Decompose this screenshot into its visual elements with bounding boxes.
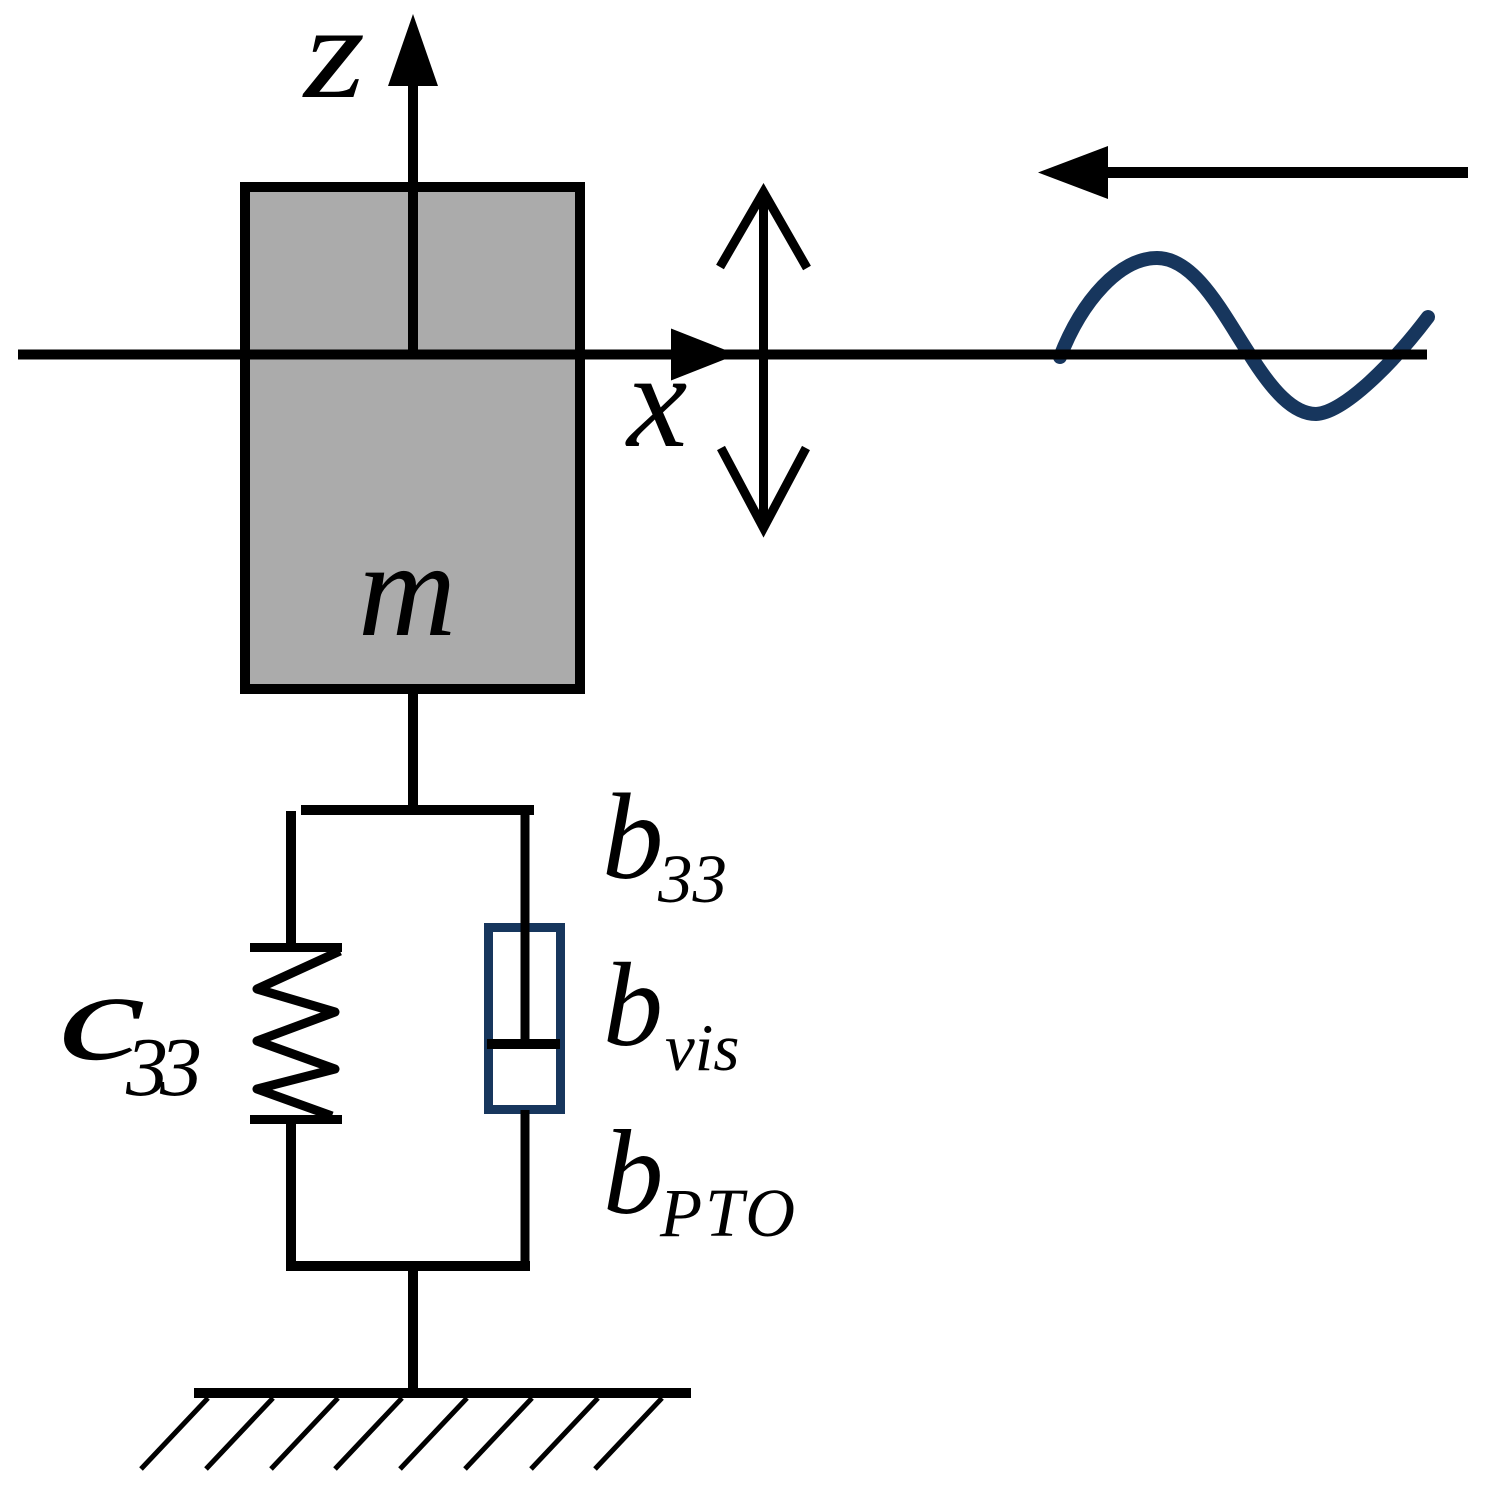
x axis line (water line): [18, 350, 1427, 360]
damper cylinder (blue): [489, 928, 561, 1110]
svg-text:z: z: [302, 0, 365, 126]
x axis arrowhead: [671, 329, 737, 381]
top junction bar: [301, 805, 534, 815]
svg-text:m: m: [358, 515, 456, 665]
z axis label: [302, 0, 365, 126]
damper piston plate: [487, 1039, 560, 1049]
heave arrow bottom chevron: [721, 448, 806, 528]
heave arrow top chevron: [720, 192, 807, 268]
svg-text:b: b: [603, 938, 663, 1071]
ground hatching: [141, 1398, 662, 1469]
svg-text:x: x: [625, 326, 687, 476]
spring label c33: [58, 946, 145, 1087]
wire damper to bottom junction: [521, 1110, 530, 1271]
incident wave direction arrow shaft: [1108, 167, 1468, 178]
incident wave sine curve: [1060, 258, 1428, 414]
svg-text:33: 33: [125, 1021, 200, 1114]
svg-text:b: b: [602, 768, 664, 905]
incident wave direction arrowhead: [1038, 146, 1108, 199]
spring c33 bottom tick: [250, 1115, 342, 1124]
heave double arrow shaft: [759, 193, 768, 519]
svg-text:vis: vis: [665, 1011, 739, 1085]
svg-text:PTO: PTO: [659, 1175, 798, 1251]
mass m body: [245, 187, 580, 689]
spring c33 top tick: [250, 943, 342, 952]
damper piston rod: [521, 805, 530, 1044]
svg-text:33: 33: [657, 841, 727, 917]
wire mass bottom to top junction: [408, 689, 418, 815]
spring c33 zigzag: [257, 951, 340, 1116]
wire bottom junction to ground: [408, 1261, 418, 1393]
bottom junction bar: [290, 1261, 530, 1271]
z axis arrowhead: [388, 14, 438, 86]
wire spring to bottom junction: [286, 1117, 296, 1271]
ground line: [194, 1388, 691, 1398]
wire junction to spring: [286, 811, 296, 948]
svg-text:b: b: [603, 1106, 664, 1240]
z axis shaft: [408, 85, 418, 353]
